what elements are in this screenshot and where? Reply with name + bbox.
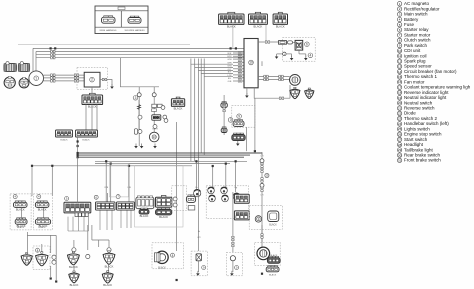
wire CDI pin stub	[233, 52, 244, 54]
wire	[235, 161, 237, 192]
node	[31, 165, 33, 167]
svg-text:BLACK: BLACK	[270, 254, 278, 257]
svg-text:3: 3	[135, 96, 137, 100]
ground	[110, 84, 114, 89]
wire	[258, 79, 290, 81]
svg-text:12: 12	[398, 59, 402, 63]
wire	[20, 207, 22, 219]
node	[235, 160, 237, 162]
svg-text:Br: Br	[198, 230, 200, 233]
inline connector circle	[137, 93, 141, 97]
wire	[198, 70, 200, 166]
inline connector	[261, 234, 263, 238]
wire	[77, 137, 79, 157]
node	[77, 152, 79, 154]
svg-text:9: 9	[238, 114, 240, 118]
tail bulb 29	[196, 254, 202, 261]
inline connector circle	[52, 255, 56, 259]
connector pill	[221, 127, 227, 133]
small circle	[86, 254, 90, 258]
wire	[198, 166, 200, 251]
inline connector	[51, 74, 55, 76]
small blocks	[188, 206, 195, 210]
node	[51, 165, 53, 167]
coupler BLACK	[68, 251, 80, 264]
circled 27	[116, 195, 120, 199]
connector block	[136, 196, 154, 209]
svg-text:BLACK: BLACK	[70, 283, 79, 287]
wire	[91, 87, 93, 95]
inline connector	[238, 61, 242, 63]
ground	[304, 56, 308, 61]
wire	[50, 266, 52, 277]
connector pill	[266, 266, 279, 272]
circled 26	[94, 195, 98, 199]
circled 13	[133, 96, 138, 101]
svg-text:13: 13	[153, 135, 157, 139]
connector round	[19, 77, 29, 88]
node	[235, 47, 237, 49]
inline connector	[74, 77, 78, 79]
wire	[91, 225, 93, 240]
svg-text:24: 24	[398, 122, 402, 126]
svg-text:L/R: L/R	[260, 156, 264, 158]
wire	[43, 207, 45, 219]
component boxes	[152, 104, 163, 111]
node	[50, 277, 52, 279]
coupler	[69, 271, 79, 283]
rectifier dashed enclosure	[77, 68, 108, 90]
inline connector	[261, 168, 263, 172]
wire bus	[95, 160, 247, 162]
dashed box taillight	[191, 251, 207, 276]
inline connector	[238, 55, 242, 57]
lamp	[222, 195, 229, 202]
wire	[27, 234, 56, 236]
dashed box fan	[255, 242, 281, 265]
inline connector	[51, 54, 55, 56]
wire	[261, 153, 263, 155]
inline connector	[238, 52, 242, 54]
inline connector	[51, 57, 55, 59]
ground	[245, 93, 249, 98]
dashed box	[33, 194, 52, 230]
ground	[275, 54, 279, 59]
wire	[33, 47, 244, 49]
wire bus	[32, 165, 192, 167]
wire	[153, 87, 155, 132]
fan motor 16	[257, 247, 270, 260]
circled 25	[65, 197, 69, 201]
wire	[96, 105, 98, 131]
ground	[236, 141, 240, 146]
connector 6-pin BLACK	[219, 12, 244, 24]
connector pill dark	[156, 208, 172, 215]
wire	[51, 166, 53, 196]
wire	[190, 64, 192, 161]
lamp	[221, 187, 228, 194]
svg-text:28: 28	[398, 143, 402, 147]
inline connector	[102, 78, 106, 80]
svg-text:BLACK: BLACK	[158, 267, 166, 270]
inline connector	[223, 107, 225, 111]
connector pill dark	[232, 133, 245, 141]
svg-text:G/Y: G/Y	[197, 237, 201, 239]
node	[77, 154, 79, 156]
svg-text:6: 6	[306, 42, 308, 46]
wire CDI pin stub	[233, 74, 244, 76]
legend list	[397, 1, 470, 163]
wire CDI pin stub	[233, 65, 244, 67]
inline connector circle	[138, 130, 142, 134]
svg-text:BLACK: BLACK	[105, 264, 114, 268]
svg-text:4: 4	[310, 53, 312, 57]
wire	[212, 166, 214, 189]
node	[77, 145, 79, 147]
wire	[258, 75, 290, 77]
wire	[232, 24, 234, 48]
svg-text:2: 2	[91, 78, 93, 82]
wire	[265, 24, 267, 42]
inline connector	[261, 178, 263, 182]
dashed box	[226, 252, 242, 275]
svg-text:29: 29	[398, 148, 402, 152]
wire CDI pin stub	[233, 55, 244, 57]
svg-text:Front brake switch: Front brake switch	[404, 158, 441, 163]
inline connector	[279, 75, 283, 77]
wire	[232, 192, 234, 252]
inline connector	[51, 77, 55, 79]
circled 23	[265, 173, 269, 177]
inline connector circle	[52, 260, 56, 264]
connector pill	[186, 195, 195, 203]
inline connector	[238, 77, 242, 79]
connector color-code box	[95, 6, 148, 34]
wire bus	[78, 156, 244, 158]
rectifier/regulator 2	[84, 72, 100, 87]
connector barrel	[4, 64, 16, 72]
wire CDI pin stub	[233, 77, 244, 79]
wire	[261, 61, 263, 66]
connector barrel	[18, 64, 29, 72]
wire	[98, 240, 100, 247]
coupler	[102, 271, 113, 283]
wire	[107, 193, 109, 202]
handlebar sw dashed box	[10, 194, 31, 230]
connector symbol	[128, 16, 141, 23]
dashed enclosure main switch	[232, 105, 255, 127]
ground	[153, 144, 157, 149]
svg-text:BLACK: BLACK	[269, 223, 277, 226]
node	[195, 160, 197, 162]
wire	[261, 225, 263, 247]
inline connector circle	[153, 125, 157, 129]
svg-text:27: 27	[398, 138, 402, 142]
wire	[108, 240, 110, 247]
svg-text:21: 21	[398, 106, 402, 110]
connector 3-pin BLACK	[273, 12, 287, 24]
wire	[138, 100, 140, 130]
wire	[204, 59, 233, 77]
connector square	[268, 211, 279, 222]
inline connector circle	[260, 159, 264, 163]
connector pill	[15, 218, 27, 225]
svg-text:BLACK: BLACK	[17, 226, 25, 229]
lamp	[233, 193, 240, 200]
inline connector circle	[152, 93, 156, 97]
wire CDI pin stub	[233, 80, 244, 82]
wire	[77, 157, 79, 202]
connector BLACK	[171, 97, 184, 106]
wire	[32, 48, 34, 71]
inline connector	[261, 187, 263, 191]
headlight coupler	[21, 253, 32, 266]
wire	[36, 54, 244, 56]
enclosure box	[135, 166, 184, 228]
inline connector circle	[173, 197, 177, 201]
lamp	[208, 187, 215, 194]
inline connector	[232, 236, 234, 240]
inline connector	[51, 50, 55, 52]
dashed box	[172, 186, 187, 211]
node	[50, 47, 52, 49]
inline connector	[279, 97, 283, 99]
svg-text:BLACK: BLACK	[227, 25, 236, 29]
svg-text:SUB WIRE HARNESS: SUB WIRE HARNESS	[124, 29, 145, 32]
wire	[305, 54, 307, 57]
svg-text:BLACK: BLACK	[88, 105, 97, 109]
inline connector	[238, 68, 242, 70]
svg-text:WIRE HARNESS: WIRE HARNESS	[100, 29, 117, 32]
node	[128, 165, 130, 167]
wire bus	[95, 163, 230, 165]
svg-text:10: 10	[398, 49, 402, 53]
dashed box	[33, 246, 50, 270]
svg-text:13: 13	[398, 65, 402, 69]
svg-text:BLACK: BLACK	[38, 226, 46, 229]
svg-text:18: 18	[398, 91, 402, 95]
svg-text:25: 25	[398, 127, 402, 131]
wire bus	[78, 154, 250, 156]
wire	[120, 58, 159, 87]
wire fan circuit	[261, 152, 263, 242]
wire	[293, 41, 296, 43]
svg-text:BLACK: BLACK	[269, 274, 277, 277]
connector	[56, 130, 73, 137]
wire	[107, 265, 109, 273]
inline connector	[238, 74, 242, 76]
coupler	[36, 252, 48, 266]
connector pill dark	[139, 208, 149, 214]
svg-text:BLACK: BLACK	[254, 25, 263, 29]
svg-text:31: 31	[398, 159, 402, 163]
dashed box headlight	[152, 243, 184, 269]
small circle	[107, 248, 111, 252]
connector pill	[35, 201, 49, 208]
wire	[44, 74, 85, 76]
wire stubs below switches	[68, 210, 131, 231]
wire	[41, 244, 43, 252]
svg-text:BLACK: BLACK	[16, 207, 25, 211]
coil symbol	[137, 105, 140, 110]
wire	[31, 166, 33, 196]
starter relay 6	[295, 40, 303, 50]
node	[77, 140, 79, 142]
circled 24	[13, 195, 17, 199]
inline connector	[238, 65, 242, 67]
wire	[286, 53, 292, 55]
svg-text:G/B: G/B	[228, 81, 232, 83]
dashed box	[249, 205, 282, 229]
wire CDI pin stub	[233, 58, 244, 60]
wire	[91, 105, 93, 131]
wire	[194, 67, 196, 161]
svg-text:W B R: W B R	[152, 129, 158, 131]
wire	[200, 74, 202, 154]
dashed box meter	[206, 186, 249, 219]
svg-text:3: 3	[230, 118, 232, 122]
connector grid small	[152, 115, 161, 120]
svg-text:BLACK: BLACK	[38, 207, 47, 211]
wire bus	[78, 152, 262, 154]
wire	[199, 59, 234, 71]
wire	[225, 164, 227, 190]
wire	[195, 161, 197, 189]
battery 4 terminal	[283, 52, 287, 56]
connector pill	[233, 120, 244, 127]
wire	[176, 122, 178, 251]
ground	[196, 271, 200, 276]
CDI unit 10	[244, 39, 258, 88]
inline connector circle	[138, 115, 142, 119]
wire	[258, 41, 278, 43]
svg-text:BLACK: BLACK	[82, 139, 90, 142]
wire	[36, 51, 244, 53]
inline connector	[264, 78, 268, 80]
connector 4-pin BLACK	[249, 12, 268, 24]
node	[105, 160, 107, 162]
node	[110, 163, 112, 165]
speed sensor 13	[149, 132, 159, 142]
wire	[105, 161, 107, 202]
inline connector	[51, 80, 55, 82]
inline connector	[74, 74, 78, 76]
inline connector	[238, 80, 242, 82]
connector grid	[156, 196, 172, 208]
wire	[254, 88, 290, 98]
svg-text:BLACK: BLACK	[140, 214, 149, 218]
enclosure box	[109, 164, 128, 197]
svg-text:10: 10	[249, 61, 253, 65]
svg-text:B/R: B/R	[228, 53, 232, 55]
node	[230, 47, 232, 49]
connector grid dark	[234, 211, 249, 220]
connector pill dark	[267, 256, 280, 263]
connector pill	[288, 41, 293, 44]
wire	[85, 105, 87, 131]
svg-text:22: 22	[398, 112, 402, 116]
wire	[44, 77, 85, 79]
connector	[76, 130, 98, 137]
inline connector	[265, 41, 269, 43]
wire	[55, 235, 57, 280]
svg-text:16: 16	[398, 80, 402, 84]
connector sub-row	[75, 213, 88, 217]
connector BLACK under rectifier	[82, 93, 103, 104]
inline connector circle	[164, 119, 168, 123]
svg-text:1: 1	[35, 76, 37, 80]
svg-text:20: 20	[398, 101, 402, 105]
svg-text:26: 26	[398, 132, 402, 136]
connector grid dark	[234, 194, 249, 203]
connector pill	[14, 201, 28, 208]
wire CDI pin stub	[233, 71, 244, 73]
circled	[36, 248, 40, 252]
wire	[245, 127, 247, 151]
inline connector	[261, 163, 263, 167]
node	[254, 150, 256, 152]
small circle	[72, 248, 76, 252]
svg-text:BLACK: BLACK	[159, 215, 168, 219]
wire	[35, 52, 37, 72]
spark plug connector	[290, 87, 300, 98]
wire	[277, 53, 283, 55]
node	[77, 156, 79, 158]
lamp	[194, 190, 201, 197]
inline connector	[232, 242, 234, 246]
wire	[232, 261, 234, 272]
headlight 28	[155, 251, 169, 263]
inline connector circle	[173, 203, 177, 207]
wire	[191, 59, 233, 65]
wire CDI pin stub	[233, 68, 244, 70]
wire CDI pin stub	[233, 61, 244, 63]
switch circle	[230, 256, 235, 261]
wire	[36, 57, 244, 59]
fuse 5	[279, 41, 287, 45]
svg-text:L/R: L/R	[260, 194, 264, 196]
ground	[134, 144, 138, 149]
svg-text:Br: Br	[196, 186, 198, 189]
ground	[230, 271, 234, 276]
wire	[73, 265, 75, 272]
connector pill	[221, 102, 227, 108]
inline connector circle	[161, 106, 165, 110]
svg-text:15: 15	[398, 75, 402, 79]
inline connector	[264, 75, 268, 77]
inline connector	[238, 58, 242, 60]
inline connector	[238, 71, 242, 73]
ground	[290, 56, 294, 61]
svg-text:11: 11	[398, 54, 401, 58]
wire	[254, 98, 256, 151]
wire	[195, 59, 233, 68]
relay cluster dashed enclosure	[283, 38, 316, 62]
wire	[26, 232, 28, 252]
wire	[138, 87, 140, 146]
node	[212, 165, 214, 167]
AC magneto 1	[29, 71, 44, 86]
component small	[134, 129, 137, 135]
wire	[110, 164, 112, 202]
inline connector circle	[163, 115, 167, 119]
svg-text:BLACK: BLACK	[103, 283, 112, 287]
inline connector	[74, 80, 78, 82]
wire	[128, 166, 130, 202]
connector pill	[35, 218, 50, 225]
inline connector circle	[260, 183, 264, 187]
engine stop connector	[96, 202, 116, 210]
